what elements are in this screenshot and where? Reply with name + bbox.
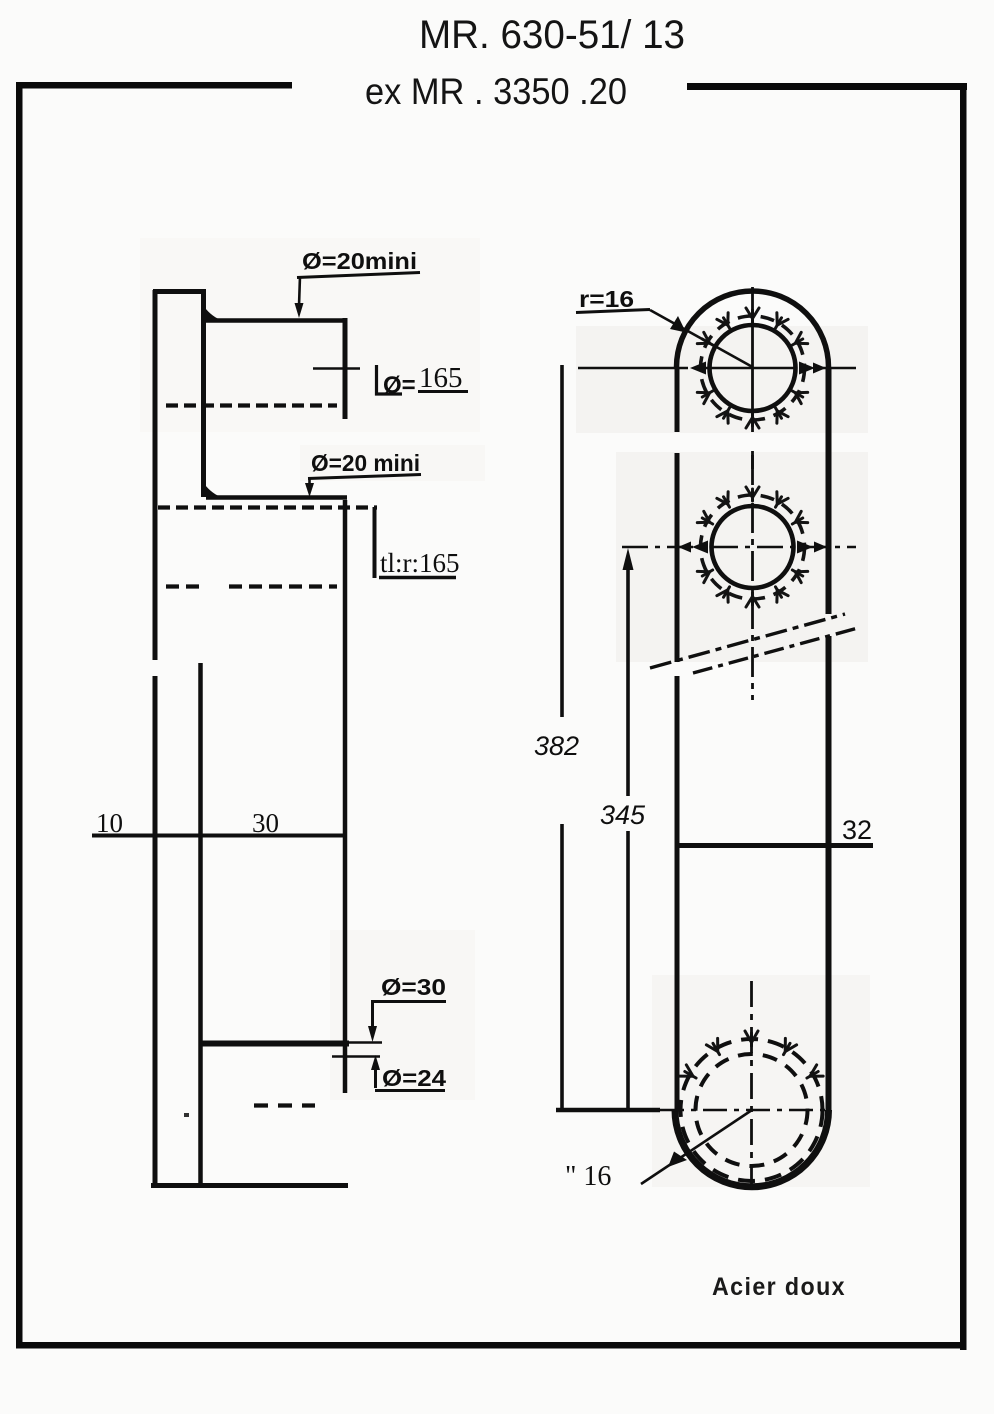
svg-text:r=16: r=16	[579, 286, 634, 312]
quadrant arrows on centerline	[690, 362, 706, 375]
svg-text:Ø=: Ø=	[383, 372, 416, 399]
svg-text:ex MR . 3350 .20: ex MR . 3350 .20	[365, 71, 627, 112]
frame border: left	[16, 82, 23, 1348]
body right edge	[343, 500, 348, 1093]
left outer edge lower segment	[153, 676, 158, 1188]
svg-text:" 16: " 16	[565, 1161, 611, 1192]
dashed line 4	[254, 1103, 315, 1107]
dashed line 2	[158, 505, 377, 509]
frame border: top-left segment	[16, 82, 292, 89]
flange top	[153, 289, 206, 294]
plate right edge segments	[826, 367, 832, 1110]
svg-text:tl:r:165: tl:r:165	[380, 548, 460, 578]
horizontal centerline	[578, 367, 856, 370]
thin tick under step	[332, 1055, 380, 1057]
leader arrow to cylinder1 top	[299, 276, 300, 306]
dimension 345 line with top arrow	[626, 566, 630, 1110]
svg-text:Ø=20mini: Ø=20mini	[302, 248, 417, 274]
label tl:r:165	[373, 507, 377, 578]
svg-text:32: 32	[842, 815, 872, 845]
cylinder 1 right edge	[343, 318, 348, 419]
diagonal break line B	[693, 628, 858, 673]
fillet 2	[203, 482, 221, 497]
vertical centerline	[750, 981, 753, 1190]
horizontal centerline (bold baseline + dash-dot)	[556, 1108, 660, 1112]
plate bottom arc	[675, 1110, 829, 1187]
left outer edge upper segment	[153, 290, 158, 660]
speck near bottom bore	[184, 1113, 189, 1117]
svg-text:345: 345	[600, 800, 646, 830]
fillet 1	[203, 305, 221, 320]
svg-text:Ø=30: Ø=30	[381, 974, 446, 1000]
svg-text:382: 382	[534, 731, 579, 761]
dimension 10/30 line	[92, 834, 347, 838]
label Ø=24 with arrow	[374, 1068, 377, 1088]
dimension 32 line	[675, 843, 873, 848]
svg-text:Acier doux: Acier doux	[712, 1273, 846, 1301]
plate left edge segments	[675, 367, 680, 1110]
frame border: top-right segment	[687, 83, 967, 90]
cylinder 2 top (second flange)	[206, 495, 347, 500]
bottom step shoulder	[201, 1041, 349, 1047]
vertical centerline	[751, 455, 754, 700]
frame border: bottom	[16, 1342, 966, 1349]
dashed line 1	[166, 403, 337, 407]
svg-text:10: 10	[96, 808, 123, 838]
circle 3 (bottom, hidden serrated hole)	[556, 981, 830, 1190]
circle 2 (middle serrated hole)	[622, 455, 856, 700]
bottom end line	[151, 1183, 348, 1188]
hidden (dashed) lines, left view	[158, 406, 377, 1106]
diagonal break line A	[650, 614, 845, 668]
svg-text:165: 165	[419, 362, 463, 394]
svg-text:30: 30	[252, 808, 279, 838]
svg-text:MR. 630-51/ 13: MR. 630-51/ 13	[419, 13, 685, 57]
label Ø=165	[313, 367, 360, 369]
horizontal dash-dot centerline	[622, 546, 856, 549]
svg-text:Ø=20 mini: Ø=20 mini	[311, 450, 420, 476]
dashed line 3	[166, 584, 337, 588]
frame border: right	[960, 83, 967, 1350]
scan shading patches	[140, 238, 870, 1187]
svg-text:Ø=24: Ø=24	[382, 1065, 446, 1091]
vertical centerline	[751, 287, 754, 469]
thin tick right of step	[347, 1041, 382, 1044]
inner bore line lower	[198, 663, 203, 1188]
circle 1 (top serrated hole)	[578, 287, 856, 469]
plate top arc	[677, 291, 829, 367]
dimension 382 line	[560, 365, 564, 1110]
cylinder 1 top	[206, 318, 347, 323]
flange right edge / neck	[201, 289, 206, 497]
